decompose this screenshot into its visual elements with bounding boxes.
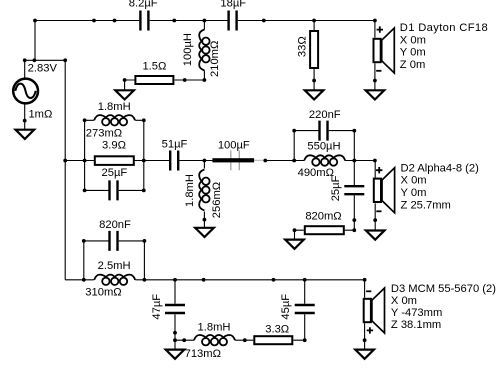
svg-text:273mΩ: 273mΩ [86, 128, 122, 140]
svg-text:Y 0m: Y 0m [401, 187, 427, 199]
svg-text:Y -473mm: Y -473mm [391, 307, 442, 319]
svg-text:220nF: 220nF [309, 109, 341, 121]
svg-text:Z 25.7mm: Z 25.7mm [401, 200, 451, 212]
svg-text:256mΩ: 256mΩ [211, 182, 223, 218]
svg-text:D1 Dayton CF18: D1 Dayton CF18 [400, 22, 488, 34]
svg-text:D2 Alpha4-8 (2): D2 Alpha4-8 (2) [401, 162, 480, 174]
svg-text:100µF: 100µF [218, 140, 250, 152]
svg-text:51µF: 51µF [162, 139, 188, 151]
svg-text:X 0m: X 0m [391, 295, 417, 307]
svg-text:Y 0m: Y 0m [400, 47, 426, 59]
svg-text:210mΩ: 210mΩ [209, 41, 221, 77]
svg-text:Z 38.1mm: Z 38.1mm [391, 319, 441, 331]
svg-text:25µF: 25µF [102, 167, 128, 179]
svg-text:100µH: 100µH [182, 33, 194, 66]
svg-text:D3 MCM 55-5670 (2): D3 MCM 55-5670 (2) [391, 283, 496, 295]
svg-text:33Ω: 33Ω [296, 36, 308, 57]
svg-text:Z 0m: Z 0m [400, 59, 425, 71]
svg-text:3.3Ω: 3.3Ω [265, 323, 289, 335]
svg-text:550µH: 550µH [307, 141, 340, 153]
svg-text:X 0m: X 0m [400, 34, 426, 46]
svg-text:820nF: 820nF [99, 219, 131, 231]
svg-text:3.9Ω: 3.9Ω [102, 140, 126, 152]
svg-text:1.8mH: 1.8mH [184, 174, 196, 207]
svg-text:490mΩ: 490mΩ [298, 167, 334, 179]
svg-text:1.8mH: 1.8mH [98, 101, 131, 113]
svg-text:47µF: 47µF [151, 294, 163, 320]
svg-text:25µF: 25µF [330, 175, 342, 201]
svg-text:820mΩ: 820mΩ [305, 211, 341, 223]
svg-text:45µF: 45µF [280, 294, 292, 320]
svg-text:310mΩ: 310mΩ [85, 287, 121, 299]
svg-text:1.5Ω: 1.5Ω [142, 60, 166, 72]
svg-text:18µF: 18µF [220, 0, 246, 9]
svg-text:X 0m: X 0m [401, 175, 427, 187]
svg-text:713mΩ: 713mΩ [185, 348, 221, 360]
svg-text:8.2µF: 8.2µF [129, 0, 158, 9]
svg-text:1.8mH: 1.8mH [198, 321, 231, 333]
svg-text:1mΩ: 1mΩ [28, 108, 52, 120]
svg-text:2.83V: 2.83V [28, 62, 58, 74]
svg-text:2.5mH: 2.5mH [98, 260, 131, 272]
